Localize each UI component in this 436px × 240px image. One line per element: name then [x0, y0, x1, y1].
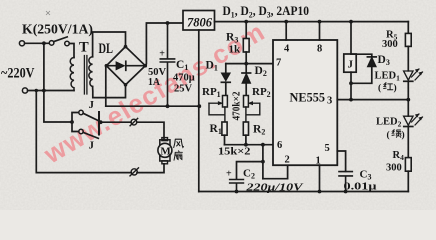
svg-text:K(250V/1A): K(250V/1A): [22, 23, 93, 38]
svg-text:(: (: [387, 130, 390, 141]
wire pin8: [319, 22, 321, 40]
wire to C2 top: [237, 162, 263, 180]
terminal upper (~220V live): [19, 41, 24, 46]
svg-text:(: (: [378, 83, 381, 94]
svg-text:1A: 1A: [148, 76, 160, 88]
relay contact J upper: [72, 113, 79, 123]
scan artifact mark top-left: [46, 11, 50, 15]
svg-text:+: +: [226, 169, 232, 180]
wire pin1 to ground: [319, 165, 321, 191]
wire neutral to primary bottom: [28, 90, 74, 92]
wire relay top to D3: [351, 54, 372, 56]
svg-text:): ): [402, 130, 405, 141]
wire bridge plus up to rail: [145, 23, 183, 66]
junction rail relay branch: [349, 20, 353, 24]
svg-text:300: 300: [382, 39, 398, 50]
motor M body: [162, 138, 168, 141]
LED2 green: [407, 100, 409, 116]
resistor R1: [222, 122, 227, 135]
svg-text:M: M: [160, 146, 171, 158]
capacitor C2: [230, 180, 244, 192]
junction D3/relay bottom: [349, 81, 353, 85]
junction contact output: [99, 120, 103, 124]
svg-text:1: 1: [316, 156, 321, 167]
svg-text:3: 3: [327, 96, 332, 107]
junction relay feed: [70, 120, 74, 124]
svg-text:D1, D2, D3, 2AP10: D1, D2, D3, 2AP10: [223, 4, 310, 20]
relay coil J box: [344, 54, 356, 72]
wire pin4: [285, 22, 287, 40]
svg-text:): ): [394, 83, 397, 94]
wire motor bottom to connector: [137, 164, 164, 173]
svg-text:1k: 1k: [229, 44, 242, 56]
LED1 red: [404, 71, 413, 80]
transformer T secondary coil: [89, 57, 93, 87]
junction rail R3: [244, 20, 248, 24]
svg-text:NE555: NE555: [290, 91, 326, 105]
connector upper: [131, 119, 137, 125]
wire contacts to motor: [99, 121, 131, 123]
svg-text:220μ/10V: 220μ/10V: [245, 183, 304, 194]
svg-text:2: 2: [285, 155, 290, 166]
transformer T primary coil: [70, 58, 74, 91]
svg-text:J: J: [89, 140, 95, 152]
junction pin3/relay: [349, 98, 353, 102]
ground bottom rail: [199, 191, 408, 193]
svg-text:7806: 7806: [187, 15, 212, 30]
potentiometer RP2: [244, 96, 249, 108]
transformer core: [84, 56, 87, 95]
wire switch to transformer primary: [69, 44, 74, 58]
resistor R3 1k: [245, 22, 247, 39]
junction bridge bottom vertex: [124, 83, 128, 87]
wire live drop to relay contacts: [44, 43, 72, 122]
junction pin1 ground: [318, 190, 322, 194]
wire relay box to pin3 line: [350, 72, 352, 99]
svg-text:DL: DL: [99, 41, 114, 57]
ground line to regulator gnd: [106, 105, 200, 107]
svg-text:0.01μ: 0.01μ: [344, 182, 377, 193]
resistor R5 300: [407, 22, 409, 34]
connector lower: [131, 169, 137, 175]
svg-text:25V: 25V: [174, 84, 193, 95]
wire pin5 to C3: [337, 151, 345, 171]
junction bridge left vertex: [105, 64, 109, 68]
wire terminal to switch K: [25, 42, 49, 44]
wire pin2: [263, 165, 288, 179]
junction C1 bottom: [166, 104, 170, 108]
diode D1: [225, 64, 227, 73]
svg-text:4: 4: [284, 44, 290, 55]
svg-text:J: J: [89, 99, 95, 111]
svg-text:5: 5: [325, 143, 330, 154]
diode D2: [245, 64, 247, 73]
svg-text:470μ: 470μ: [173, 73, 195, 84]
IC NE555 box: [273, 40, 337, 165]
wire 7806 gnd drop: [198, 30, 200, 192]
junction R3/D2: [244, 62, 248, 66]
svg-text:300: 300: [386, 163, 402, 174]
junction bridge right vertex: [144, 64, 148, 68]
junction C2 branch: [261, 160, 265, 164]
wire secondary top to bridge: [93, 32, 126, 57]
wire pin3 output line: [337, 99, 408, 101]
junction C1 top: [166, 21, 170, 25]
diode D3: [367, 56, 376, 58]
junction pin3/LED: [406, 98, 410, 102]
junction neutral/motor-return: [35, 89, 38, 92]
watermark www.elecfans.com: [38, 16, 270, 170]
svg-text:J: J: [348, 59, 354, 71]
junction C3 ground: [344, 190, 348, 194]
resistor R4 300: [405, 158, 411, 172]
wire secondary bottom to bridge left vertex: [93, 66, 106, 98]
switch K: [49, 41, 54, 46]
node junction at x44 top: [42, 41, 46, 45]
wire pin7 line: [226, 63, 273, 65]
wire relay branch: [350, 22, 352, 54]
relay contact J lower: [72, 122, 79, 132]
bridge rectifier DL diamond: [106, 47, 145, 85]
wire pin6 line: [225, 144, 274, 146]
regulator 7806 box: [183, 11, 215, 31]
junction R2/pin6: [244, 143, 248, 147]
rail 7806 output: [215, 21, 409, 23]
svg-text:+: +: [159, 49, 165, 60]
svg-text:T: T: [79, 40, 89, 56]
terminal lower (~220V neutral): [22, 88, 27, 93]
capacitor C1: [160, 23, 174, 106]
relay contact common bar: [98, 112, 100, 135]
junction C2 ground: [235, 190, 239, 194]
svg-text:6: 6: [277, 140, 282, 151]
wire branch down to pin2 link: [262, 145, 264, 179]
label fan feng: [174, 139, 184, 147]
label fan shan: [174, 151, 182, 160]
junction pin6/branch: [261, 143, 265, 147]
wire bridge minus jog to ground line: [106, 85, 126, 106]
svg-text:470k×2: 470k×2: [232, 92, 243, 121]
svg-text:15k×2: 15k×2: [218, 146, 251, 158]
junction neutral/K-drop crossing: [42, 89, 46, 93]
svg-text:8: 8: [317, 44, 322, 55]
wire connector to motor top: [137, 122, 164, 139]
bridge inner diode: [108, 65, 143, 67]
svg-text:7: 7: [276, 58, 281, 69]
potentiometer RP1: [223, 96, 228, 108]
junction ground at gnd drop: [197, 104, 201, 108]
junction rail pin8: [318, 20, 322, 24]
junction bridge top vertex: [124, 45, 128, 49]
wire motor return drop: [36, 91, 131, 173]
resistor R2: [243, 122, 248, 135]
svg-text:~220V: ~220V: [1, 66, 35, 82]
junction rail pin4: [284, 20, 288, 24]
capacitor C3: [339, 172, 352, 192]
